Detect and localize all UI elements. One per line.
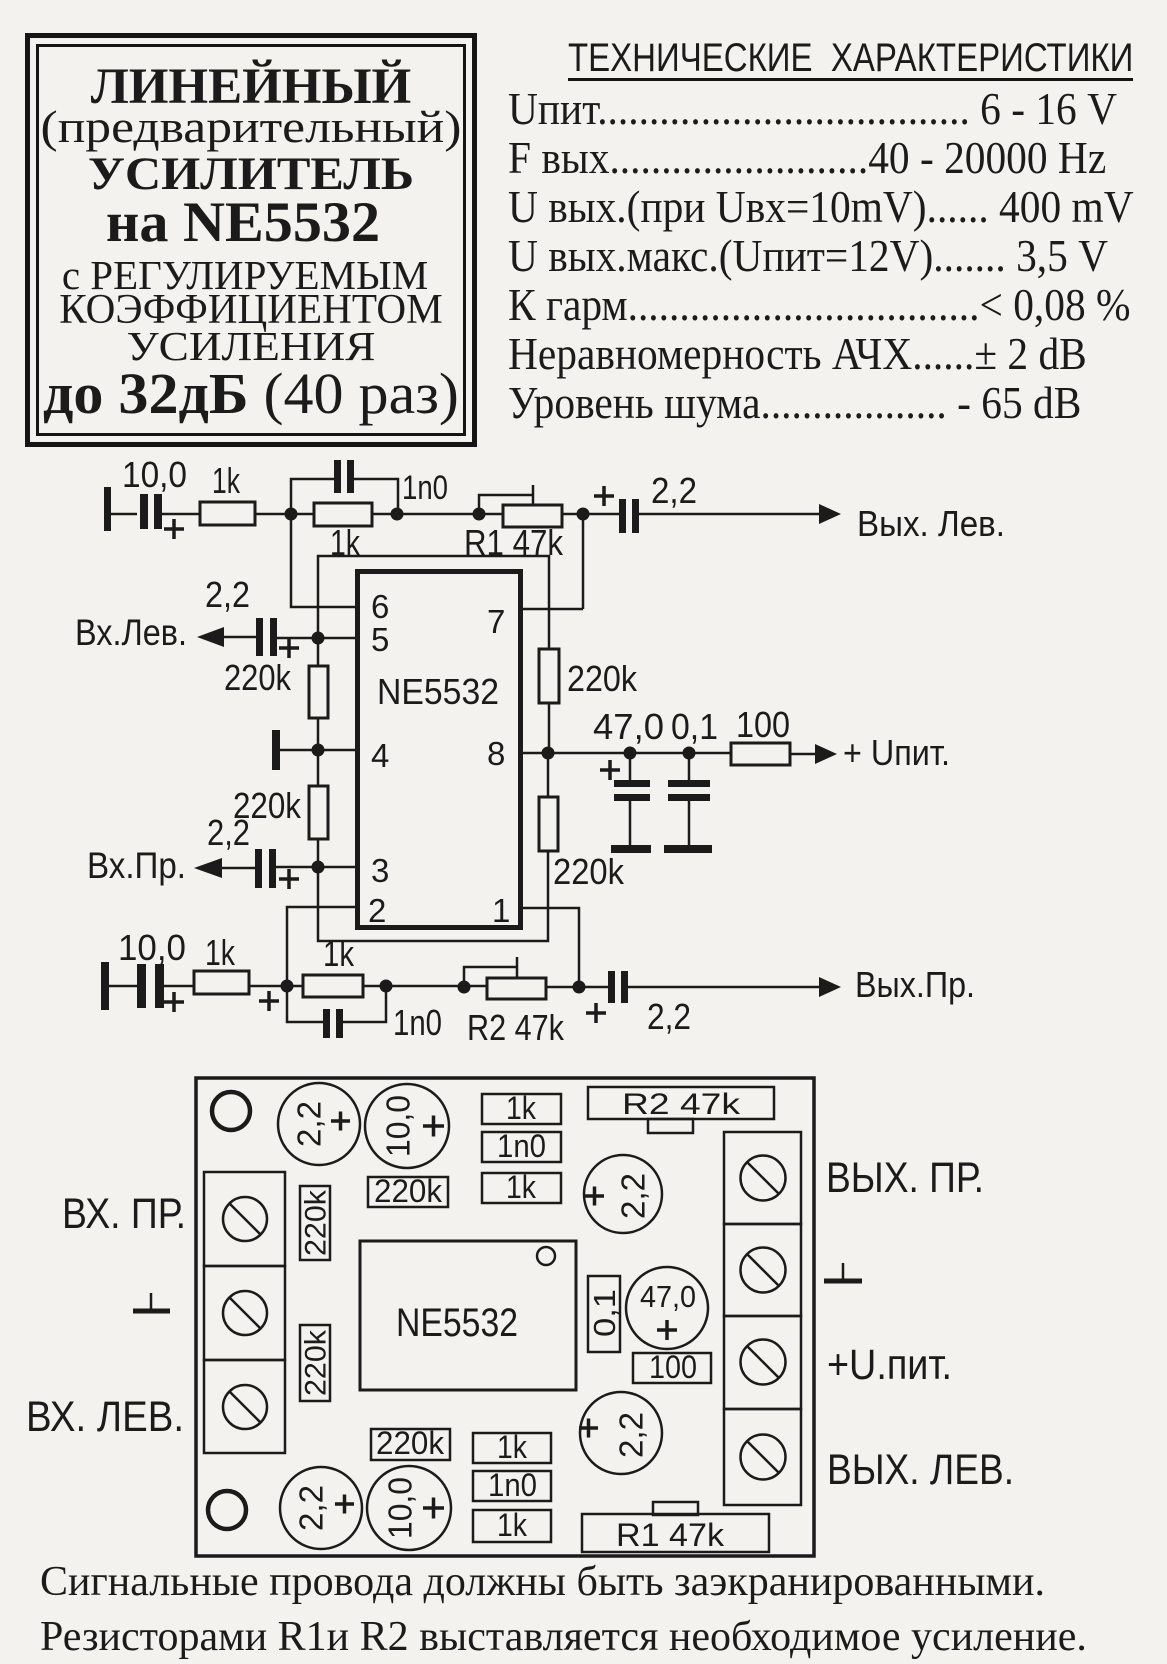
svg-text:1k: 1k [497,1507,528,1543]
svg-text:100: 100 [736,704,790,745]
svg-text:1k: 1k [330,522,361,563]
svg-text:220k: 220k [374,1173,443,1209]
svg-text:NE5532: NE5532 [396,1301,518,1345]
svg-text:2,2: 2,2 [647,996,691,1037]
svg-text:1k: 1k [497,1429,528,1465]
svg-text:R1 47k: R1 47k [616,1517,725,1553]
svg-text:0,1: 0,1 [587,1289,622,1337]
svg-text:5: 5 [371,621,389,658]
svg-text:1n0: 1n0 [402,469,448,507]
svg-text:220k: 220k [553,851,625,892]
svg-text:R2 47k: R2 47k [622,1088,741,1121]
svg-text:47,0: 47,0 [640,1279,696,1314]
svg-text:ВХ. ПР.: ВХ. ПР. [62,1190,186,1238]
svg-text:ВХ. ЛЕВ.: ВХ. ЛЕВ. [26,1393,184,1441]
svg-text:Вх.Лев.: Вх.Лев. [75,612,187,653]
svg-text:220k: 220k [567,658,638,699]
svg-text:3: 3 [371,852,389,889]
svg-text:2: 2 [368,892,386,929]
svg-text:1n0: 1n0 [488,1467,537,1503]
svg-text:1n0: 1n0 [393,1002,442,1043]
svg-text:Вых.Пр.: Вых.Пр. [855,964,975,1005]
svg-text:2,2: 2,2 [205,574,250,615]
svg-text:1k: 1k [506,1090,537,1126]
svg-text:2,2: 2,2 [207,812,250,853]
svg-text:2,2: 2,2 [291,1101,328,1147]
svg-text:R1 47k: R1 47k [464,522,564,563]
svg-text:220k: 220k [224,657,292,698]
svg-text:10,0: 10,0 [122,454,187,495]
svg-text:0,1: 0,1 [671,706,718,747]
svg-text:R2 47k: R2 47k [467,1007,565,1048]
svg-text:10,0: 10,0 [380,1095,417,1157]
svg-text:1k: 1k [323,933,355,974]
svg-text:100: 100 [649,1349,697,1385]
svg-text:+U.пит.: +U.пит. [827,1341,952,1389]
svg-text:ВЫХ. ЛЕВ.: ВЫХ. ЛЕВ. [827,1446,1014,1494]
svg-text:1k: 1k [212,460,241,501]
svg-text:220k: 220k [376,1425,445,1461]
svg-text:1k: 1k [205,932,236,973]
svg-text:1k: 1k [506,1169,537,1205]
svg-text:10,0: 10,0 [382,1477,419,1539]
svg-text:4: 4 [371,737,389,774]
svg-text:Вх.Пр.: Вх.Пр. [87,845,186,886]
svg-text:1: 1 [492,892,510,929]
svg-text:220k: 220k [300,1189,333,1256]
svg-text:6: 6 [371,588,389,625]
svg-text:ВЫХ. ПР.: ВЫХ. ПР. [826,1154,984,1202]
svg-text:2,2: 2,2 [615,1173,652,1219]
svg-text:NE5532: NE5532 [377,671,499,712]
svg-text:1n0: 1n0 [497,1128,546,1164]
svg-text:10,0: 10,0 [118,927,186,968]
svg-text:Вых. Лев.: Вых. Лев. [857,503,1005,544]
svg-text:7: 7 [487,603,505,640]
svg-text:220k: 220k [300,1329,333,1396]
svg-text:2,2: 2,2 [651,470,697,511]
svg-text:47,0: 47,0 [593,706,664,747]
svg-text:2,2: 2,2 [613,1412,650,1458]
svg-text:2,2: 2,2 [293,1485,330,1531]
svg-text:8: 8 [487,735,505,772]
svg-text:+ Uпит.: + Uпит. [843,732,950,773]
